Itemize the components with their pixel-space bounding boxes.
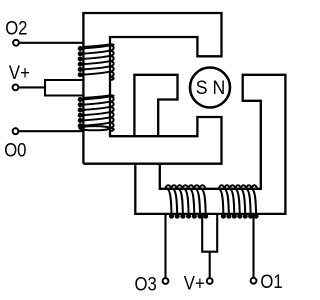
terminal V+ bottom	[207, 278, 213, 284]
svg-text:S N: S N	[196, 77, 226, 99]
terminal O0	[13, 128, 19, 134]
wire O2 lead	[20, 42, 84, 44]
wire O1 lead	[252, 215, 254, 278]
coil winding L1 upper (O2 to V+)	[81, 44, 114, 80]
svg-text:O2: O2	[5, 18, 27, 39]
coil winding L2 lower (V+ to O0)	[79, 95, 113, 131]
stator top yoke outline	[83, 13, 221, 164]
wire O0 lead	[19, 130, 83, 132]
terminal V+ left	[13, 85, 19, 91]
stator bottom yoke outline	[135, 75, 285, 214]
rotor magnet circle	[190, 68, 230, 108]
svg-text:V+: V+	[184, 274, 205, 295]
coil winding B1 bottom-left (O3 to V+)	[165, 185, 205, 215]
wire O3 lead	[164, 214, 166, 278]
coil winding B2 bottom-right (V+ to O1)	[219, 185, 257, 215]
svg-text:V+: V+	[9, 63, 30, 84]
wire V+ left lead and tap bar	[19, 80, 83, 96]
terminal O2	[13, 40, 19, 46]
terminal O3	[163, 278, 169, 284]
svg-text:O3: O3	[135, 274, 157, 295]
wire V+ bottom tap	[202, 214, 217, 278]
svg-text:O1: O1	[260, 272, 282, 293]
svg-text:O0: O0	[4, 141, 26, 162]
stator left-middle pole piece	[134, 75, 177, 136]
terminal O1	[251, 278, 257, 284]
